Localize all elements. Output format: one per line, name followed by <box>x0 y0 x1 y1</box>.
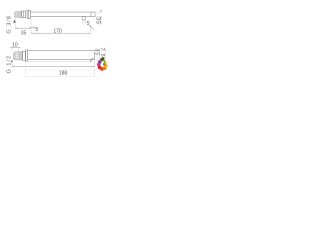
wall flange <box>26 50 28 62</box>
spout tube (top view outline) <box>31 12 95 17</box>
logo orange blob <box>103 66 107 70</box>
table line row2 <box>26 69 95 71</box>
oblique tick right end <box>90 58 94 62</box>
logo white center <box>100 63 103 66</box>
logo blue dot <box>103 63 105 65</box>
dimension line 188 <box>12 66 94 68</box>
dimension 5 (flange depth) <box>33 26 35 31</box>
logo yellow-orange blob <box>104 64 108 68</box>
hex nut section <box>22 11 26 18</box>
threaded nipple (hatched) <box>15 12 21 18</box>
table line row1 <box>26 61 95 63</box>
logo yellow blob <box>104 62 107 65</box>
svg-text:G 3/8: G 3/8 <box>7 15 13 33</box>
vertical dim line 35 <box>99 50 101 59</box>
hex nut section <box>23 51 26 60</box>
svg-text:7.5: 7.5 <box>99 48 105 58</box>
svg-text:5: 5 <box>87 21 90 27</box>
svg-text:170: 170 <box>53 29 62 35</box>
threaded tail (hatched) <box>15 52 23 60</box>
background <box>0 0 120 80</box>
svg-text:188: 188 <box>59 71 68 77</box>
logo purple blob <box>98 60 102 64</box>
vertical dim line 7.5 <box>105 50 107 57</box>
right vertical ext lines (bottom view) <box>94 50 106 59</box>
svg-text:5: 5 <box>36 27 39 33</box>
svg-text:G 1/2: G 1/2 <box>7 55 13 73</box>
right vertical dim 35 (top view) <box>95 12 102 17</box>
table left edge <box>25 62 27 77</box>
leader line with arrow <box>90 26 95 30</box>
svg-text:35: 35 <box>21 30 27 36</box>
logo magenta blob <box>97 63 101 67</box>
logo green dot <box>103 60 105 62</box>
threaded nipple cap line <box>14 12 16 17</box>
extension line left (35 dim) <box>15 18 17 29</box>
logo dark olive flame <box>100 58 103 61</box>
threaded tail cap line <box>12 53 14 60</box>
outlet extension ticks <box>83 20 86 23</box>
dimension line 35 <box>16 27 32 29</box>
wall flange <box>27 10 31 18</box>
spout tube (side view outline) <box>27 50 94 59</box>
table right edge <box>93 59 95 77</box>
extension line right end 170 <box>90 27 92 34</box>
G 3/8 leader arrowhead <box>13 20 16 23</box>
svg-text:35: 35 <box>93 48 99 56</box>
dimension line 170 <box>31 32 91 34</box>
extension lines 10 <box>12 48 19 51</box>
logo: rainbow swirl of blobs <box>97 57 108 71</box>
logo red blob <box>98 66 102 70</box>
extension line flange (shared 35/170) <box>30 19 32 34</box>
extension line 188 left <box>11 60 13 67</box>
logo orange-red blob <box>100 67 104 71</box>
outlet centerline <box>83 20 85 25</box>
svg-text:35: 35 <box>95 17 101 25</box>
table line row3 <box>26 76 95 78</box>
outlet ring under tube <box>83 17 86 20</box>
G 1/2 leader arrowhead <box>11 60 13 63</box>
dimension line 10 <box>11 47 19 49</box>
